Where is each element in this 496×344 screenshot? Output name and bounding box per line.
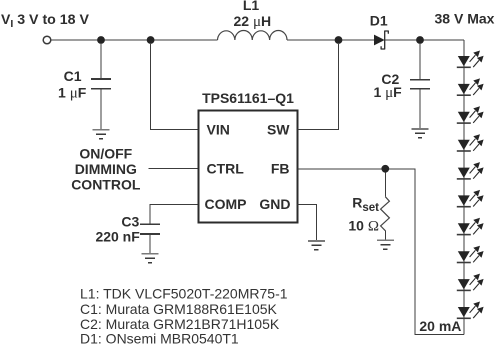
svg-text:VIN: VIN <box>207 122 230 138</box>
wire COMP pin to C3 <box>150 204 199 224</box>
svg-text:22 μH: 22 μH <box>233 13 271 30</box>
wire LED string <box>463 40 465 335</box>
LED 9 <box>457 274 484 291</box>
svg-text:SW: SW <box>267 122 290 138</box>
node junction VIN <box>147 36 155 44</box>
node junction SW <box>335 36 343 44</box>
node junction C2 output <box>416 36 424 44</box>
ground C1 <box>93 130 110 139</box>
svg-text:FB: FB <box>271 161 290 177</box>
inductor L1 <box>218 30 288 40</box>
wire C2 to ground <box>419 89 421 129</box>
svg-text:20 mA: 20 mA <box>419 318 461 334</box>
svg-text:GND: GND <box>259 196 290 212</box>
resistor Rset <box>381 197 390 231</box>
wire node to C1 <box>100 44 102 79</box>
svg-text:L1: TDK VLCF5020T-220MR75-1: L1: TDK VLCF5020T-220MR75-1 <box>80 285 288 301</box>
wire FB pin to LED return <box>298 169 464 335</box>
LED 4 <box>457 134 484 151</box>
LED 7 <box>457 218 484 235</box>
svg-text:C1: Murata GRM188R61E105K: C1: Murata GRM188R61E105K <box>80 301 278 317</box>
LED 5 <box>457 162 484 179</box>
svg-text:1 μF: 1 μF <box>373 84 402 101</box>
node junction FB Rset <box>381 165 389 173</box>
ground C3 <box>142 254 159 263</box>
svg-text:C1: C1 <box>64 68 82 84</box>
wire FB node to Rset <box>384 173 386 197</box>
svg-text:D1: ONsemi MBR0540T1: D1: ONsemi MBR0540T1 <box>80 330 239 344</box>
svg-text:VI 3 V to 18 V: VI 3 V to 18 V <box>1 11 89 30</box>
wire output node to C2 <box>419 44 421 80</box>
ground C2 <box>412 129 429 138</box>
wire SW pin to rail <box>298 44 339 130</box>
svg-text:DIMMING: DIMMING <box>75 161 137 177</box>
LED 1 <box>457 51 484 68</box>
node input terminal <box>43 36 51 44</box>
LED 8 <box>457 246 484 263</box>
wire Rset to ground <box>384 231 386 241</box>
svg-text:COMP: COMP <box>205 196 247 212</box>
wire control to CTRL pin <box>149 167 199 169</box>
svg-text:ON/OFF: ON/OFF <box>79 146 132 162</box>
IC U1 TPS61161-Q1 <box>199 111 298 223</box>
svg-text:1 μF: 1 μF <box>58 84 87 101</box>
svg-text:CTRL: CTRL <box>207 161 245 177</box>
svg-text:220 nF: 220 nF <box>95 229 140 245</box>
LED 6 <box>457 190 484 207</box>
svg-text:C3: C3 <box>121 214 139 230</box>
LED 10 <box>457 302 484 319</box>
svg-text:38 V Max: 38 V Max <box>435 11 495 27</box>
svg-text:TPS61161–Q1: TPS61161–Q1 <box>202 90 294 106</box>
ground Rset <box>377 240 394 249</box>
LED 2 <box>457 78 484 95</box>
wire diode to output node <box>385 39 464 41</box>
capacitor C1 <box>91 78 111 80</box>
node junction C1 <box>97 36 105 44</box>
svg-text:Rset: Rset <box>352 194 379 214</box>
svg-text:10 Ω: 10 Ω <box>348 218 379 235</box>
wire GND pin to ground <box>298 204 317 241</box>
capacitor C3 <box>140 223 160 225</box>
LED 3 <box>457 106 484 123</box>
svg-text:D1: D1 <box>370 13 388 29</box>
wire input rail to inductor <box>51 39 218 41</box>
ground GND pin <box>308 241 325 250</box>
capacitor C2 <box>410 79 430 81</box>
wire inductor to diode <box>287 39 374 41</box>
svg-text:L1: L1 <box>243 0 260 13</box>
wire node to VIN pin <box>151 44 199 130</box>
diode D1 <box>374 35 385 46</box>
wire C3 to ground <box>149 234 151 254</box>
svg-text:CONTROL: CONTROL <box>71 177 141 193</box>
wire C1 to ground <box>100 89 102 130</box>
